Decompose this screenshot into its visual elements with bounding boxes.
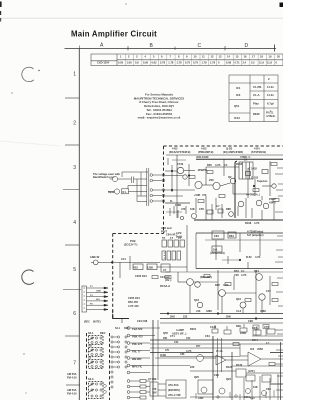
- svg-text:C98: C98: [248, 319, 253, 323]
- svg-text:0.05: 0.05: [118, 61, 124, 65]
- svg-text:C 1452: C 1452: [249, 166, 258, 170]
- svg-text:4.5N.B.: 4.5N.B.: [266, 114, 276, 118]
- svg-text:1.78: 1.78: [202, 61, 208, 65]
- svg-text:0: 0: [276, 61, 278, 65]
- svg-text:C7: C7: [163, 268, 167, 272]
- svg-text:P1: P1: [90, 286, 93, 288]
- svg-text:4558: 4558: [257, 347, 263, 351]
- svg-text:C52: C52: [174, 341, 179, 344]
- svg-text:Band/Switch pos.: Band/Switch pos.: [93, 175, 115, 179]
- svg-text:11.8: 11.8: [267, 61, 272, 65]
- svg-text:CXD-1204: CXD-1204: [97, 61, 110, 65]
- svg-text:C205 1N4: C205 1N4: [128, 296, 140, 300]
- svg-text:4-T2(NF/wha): 4-T2(NF/wha): [247, 230, 263, 234]
- svg-text:2: 2: [128, 55, 130, 59]
- svg-text:470: 470: [202, 193, 207, 197]
- svg-text:2SC: 2SC: [209, 178, 214, 182]
- svg-text:4.7K: 4.7K: [215, 163, 221, 167]
- svg-text:4.7K: 4.7K: [223, 283, 229, 287]
- svg-text:16: 16: [244, 55, 247, 59]
- svg-text:C83: C83: [266, 387, 271, 391]
- svg-text:C: C: [198, 43, 202, 49]
- svg-text:20: 20: [277, 55, 280, 59]
- svg-text:15: 15: [236, 55, 239, 59]
- svg-text:R108: R108: [245, 221, 252, 225]
- svg-text:12: 12: [211, 55, 214, 59]
- svg-text:FM 4.50: FM 4.50: [67, 376, 77, 380]
- svg-text:A: A: [100, 42, 104, 48]
- svg-text:0.1: 0.1: [241, 269, 245, 273]
- svg-text:8: 8: [178, 55, 180, 59]
- svg-text:5: 5: [73, 267, 76, 273]
- svg-text:413: 413: [196, 309, 201, 313]
- svg-text:C99: C99: [214, 373, 219, 377]
- svg-text:(PREAMP B): (PREAMP B): [198, 150, 214, 154]
- svg-text:120K: 120K: [147, 265, 153, 269]
- svg-text:470: 470: [181, 207, 186, 211]
- svg-text:Tape/rec: Tape/rec: [257, 179, 268, 183]
- svg-text:4-P2: 4-P2: [176, 231, 182, 235]
- svg-text:(AV..): (AV..): [165, 278, 171, 282]
- svg-text:220K: 220K: [240, 331, 246, 335]
- svg-text:PRnP: PRnP: [269, 197, 276, 201]
- svg-text:4PB/PB: 4PB/PB: [198, 168, 207, 172]
- svg-text:4.7K: 4.7K: [255, 255, 261, 259]
- svg-text:C205 1N4: C205 1N4: [135, 274, 147, 278]
- svg-text:3: 3: [136, 55, 138, 59]
- svg-text:C35: C35: [234, 273, 239, 277]
- svg-text:4CD and: 4CD and: [161, 226, 172, 230]
- svg-text:S.P (amp/rec): S.P (amp/rec): [247, 233, 264, 237]
- svg-text:4CD-01/4F: 4CD-01/4F: [196, 155, 209, 159]
- svg-text:4: 4: [73, 220, 76, 226]
- svg-text:IC 3A: IC 3A: [216, 349, 223, 353]
- svg-text:1: 1: [120, 55, 122, 59]
- svg-text:41.3: 41.3: [236, 309, 242, 313]
- svg-text:470: 470: [152, 387, 157, 391]
- svg-text:C84: C84: [214, 234, 219, 238]
- svg-text:4.7K: 4.7K: [241, 273, 247, 277]
- svg-text:2.4: 2.4: [243, 61, 247, 65]
- svg-text:IC3: IC3: [236, 93, 241, 97]
- svg-text:10: 10: [194, 55, 197, 59]
- svg-text:11.9: 11.9: [259, 61, 264, 65]
- svg-text:13: 13: [219, 55, 222, 59]
- svg-text:R77: R77: [196, 345, 201, 348]
- svg-text:1.78: 1.78: [168, 61, 174, 65]
- svg-text:Play: Play: [253, 102, 259, 106]
- svg-text:6.7gf: 6.7gf: [267, 102, 274, 106]
- svg-text:RCA/LsI: RCA/LsI: [160, 284, 170, 288]
- svg-text:LINE IN: LINE IN: [90, 255, 99, 259]
- svg-text:19: 19: [269, 55, 272, 59]
- svg-text:4: 4: [145, 55, 147, 59]
- svg-text:R81: R81: [163, 337, 168, 340]
- svg-text:2: 2: [73, 121, 76, 127]
- svg-text:R144: R144: [252, 339, 258, 342]
- svg-text:C1-PB: C1-PB: [253, 85, 261, 89]
- svg-text:Q51: Q51: [234, 104, 240, 108]
- svg-text:R103: R103: [236, 162, 243, 166]
- svg-text:0.08: 0.08: [226, 61, 232, 65]
- svg-text:PBK 475: PBK 475: [132, 335, 143, 339]
- svg-text:R-52: R-52: [246, 255, 252, 259]
- svg-text:R120: R120: [226, 365, 233, 369]
- svg-text:Main Amplifier Circuit: Main Amplifier Circuit: [71, 30, 157, 39]
- svg-text:R25: R25: [215, 283, 220, 287]
- svg-text:Q14: Q14: [254, 269, 259, 273]
- svg-text:FRL 77: FRL 77: [132, 350, 141, 354]
- svg-text:Q55: Q55: [163, 331, 168, 335]
- svg-text:222: 222: [183, 315, 188, 319]
- svg-text:R L: R L: [123, 190, 128, 194]
- svg-text:0: 0: [218, 61, 220, 65]
- svg-text:1.06: 1.06: [127, 61, 133, 65]
- svg-text:470: 470: [165, 349, 170, 352]
- svg-text:4 + 2 (C 4..): 4 + 2 (C 4..): [246, 193, 260, 197]
- svg-text:B: B: [150, 43, 154, 49]
- svg-text:(2C/13Y-T-): (2C/13Y-T-): [124, 243, 138, 247]
- svg-text:7: 7: [73, 360, 76, 366]
- svg-text:C56: C56: [199, 207, 204, 211]
- svg-text:IC1: IC1: [236, 86, 241, 90]
- svg-text:(AV/IvcFwd): (AV/IvcFwd): [210, 251, 225, 255]
- svg-text:PCB: PCB: [130, 239, 136, 243]
- svg-text:3T: 3T: [178, 236, 181, 240]
- svg-text:4.7K 100: 4.7K 100: [128, 304, 139, 308]
- svg-text:R33: R33: [234, 269, 239, 273]
- svg-text:(LPF): (LPF): [248, 369, 255, 373]
- svg-text:2N6: 2N6: [226, 315, 231, 319]
- svg-text:9: 9: [186, 55, 188, 59]
- svg-text:43NB: 43NB: [269, 200, 276, 204]
- svg-text:18: 18: [260, 55, 263, 59]
- svg-text:14: 14: [227, 55, 230, 59]
- svg-text:0.95: 0.95: [143, 61, 149, 65]
- svg-text:Q2: Q2: [228, 175, 232, 179]
- svg-text:1k1: 1k1: [213, 248, 218, 252]
- svg-text:D: D: [245, 43, 249, 49]
- svg-text:5.78: 5.78: [160, 61, 166, 65]
- svg-text:IC12: IC12: [234, 116, 240, 120]
- svg-text:R..: R..: [170, 199, 174, 203]
- svg-text:REW: REW: [253, 112, 260, 116]
- svg-text:R52: R52: [133, 265, 138, 269]
- svg-text:4380: 4380: [206, 309, 212, 313]
- svg-text:C88: C88: [180, 353, 185, 356]
- svg-text:Q22: Q22: [226, 377, 231, 381]
- svg-text:R88: R88: [226, 207, 231, 211]
- svg-text:4.7K: 4.7K: [186, 349, 192, 353]
- svg-text:Q16: Q16: [236, 297, 241, 301]
- svg-text:ATA-50A: ATA-50A: [168, 383, 179, 387]
- svg-text:(EQ AMPLIFIER): (EQ AMPLIFIER): [223, 150, 243, 154]
- svg-text:AM 50A: AM 50A: [67, 388, 77, 392]
- svg-text:(NF/AMP): (NF/AMP): [200, 275, 212, 279]
- svg-text:FM 4.50: FM 4.50: [67, 392, 77, 396]
- svg-text:C-102: C-102: [251, 176, 259, 180]
- svg-text:0.62: 0.62: [152, 61, 158, 65]
- svg-text:438C: 438C: [260, 309, 266, 313]
- svg-text:Fax:- 01844-352554: Fax:- 01844-352554: [146, 112, 173, 116]
- svg-text:C4: C4: [224, 163, 228, 167]
- svg-text:5T: 5T: [162, 236, 165, 240]
- svg-text:R130: R130: [236, 363, 243, 367]
- svg-text:SIG: SIG: [96, 299, 100, 301]
- svg-text:C120: C120: [210, 325, 217, 329]
- svg-text:(EM RDS): (EM RDS): [168, 388, 180, 392]
- svg-text:0.75: 0.75: [193, 61, 199, 65]
- svg-text:2N2: 2N2: [170, 315, 175, 319]
- svg-text:C41: C41: [121, 257, 126, 261]
- svg-text:17: 17: [252, 55, 255, 59]
- svg-text:R84: R84: [229, 234, 234, 238]
- svg-text:0.8: 0.8: [135, 61, 139, 65]
- svg-text:AM 50A: AM 50A: [67, 372, 77, 376]
- svg-text:+50R: +50R: [194, 193, 200, 197]
- svg-text:C64: C64: [205, 334, 210, 338]
- svg-text:11.2v: 11.2v: [267, 85, 274, 89]
- svg-text:R99: R99: [236, 324, 241, 328]
- svg-text:7: 7: [170, 55, 172, 59]
- svg-text:PB/T: PB/T: [161, 229, 167, 233]
- svg-text:5.2: 5.2: [251, 61, 255, 65]
- svg-text:4.7K: 4.7K: [254, 221, 260, 225]
- svg-text:10K: 10K: [253, 385, 258, 389]
- svg-text:10K: 10K: [186, 337, 191, 340]
- svg-text:R201: R201: [190, 327, 197, 331]
- svg-text:PRL 275: PRL 275: [132, 342, 143, 346]
- svg-text:Q18: Q18: [194, 298, 199, 302]
- svg-text:C94 C98: C94 C98: [137, 319, 148, 323]
- svg-text:TBA 520: TBA 520: [132, 327, 143, 331]
- svg-text:C733: C733: [177, 162, 184, 166]
- svg-text:S2: S2: [88, 356, 92, 360]
- svg-text:1T: 1T: [170, 236, 173, 240]
- svg-text:C71: C71: [170, 334, 175, 338]
- svg-text:6: 6: [161, 55, 163, 59]
- svg-text:10K: 10K: [190, 207, 195, 211]
- svg-text:S2-1: S2-1: [115, 327, 121, 330]
- svg-text:REC: REC: [100, 331, 106, 335]
- svg-text:1K: 1K: [244, 158, 247, 162]
- svg-text:0.71: 0.71: [235, 61, 241, 65]
- svg-text:1.78: 1.78: [177, 61, 183, 65]
- svg-text:2: 2: [268, 77, 270, 81]
- svg-text:0.75: 0.75: [185, 61, 191, 65]
- svg-text:S2-1: S2-1: [88, 331, 94, 335]
- svg-text:(SYSTEM B): (SYSTEM B): [251, 150, 266, 154]
- svg-text:C1-A: C1-A: [253, 93, 260, 97]
- svg-text:ATA-C 50F: ATA-C 50F: [168, 393, 181, 397]
- svg-text:MPX FIL: MPX FIL: [132, 365, 143, 369]
- svg-text:1: 1: [73, 71, 76, 77]
- svg-text:(RCA/SYSTEM B): (RCA/SYSTEM B): [169, 150, 190, 154]
- svg-text:MUTE): MUTE): [93, 321, 101, 324]
- svg-text:3: 3: [73, 165, 76, 171]
- svg-text:16V: 16V: [152, 391, 157, 395]
- svg-text:IC3: IC3: [250, 347, 255, 351]
- svg-text:5: 5: [153, 55, 155, 59]
- svg-text:4-AMP: 4-AMP: [176, 328, 184, 332]
- svg-text:WB WD: WB WD: [132, 357, 141, 361]
- svg-text:100K: 100K: [175, 203, 181, 207]
- svg-text:AB: AB: [88, 344, 92, 348]
- svg-text:6: 6: [73, 311, 76, 317]
- svg-text:Input: Input: [108, 190, 114, 194]
- svg-text:S2-3: S2-3: [88, 377, 94, 381]
- svg-text:1.78: 1.78: [210, 61, 216, 65]
- svg-text:GND: GND: [96, 291, 101, 293]
- svg-text:email:- enquiries@mauritron.co: email:- enquiries@mauritron.co.uk: [138, 116, 181, 120]
- svg-text:(REC: (REC: [84, 321, 90, 324]
- svg-text:C47: C47: [266, 289, 271, 293]
- svg-text:R05: R05: [207, 163, 212, 167]
- svg-text:4.7: 4.7: [266, 342, 270, 345]
- svg-text:47 C99: 47 C99: [148, 377, 157, 381]
- svg-text:220: 220: [190, 365, 195, 369]
- svg-text:Q20: Q20: [194, 375, 199, 379]
- svg-text:11: 11: [202, 55, 205, 59]
- svg-text:11.2v: 11.2v: [267, 93, 274, 97]
- svg-text:4.7: 4.7: [216, 204, 220, 208]
- svg-text:R52 47K: R52 47K: [128, 300, 138, 304]
